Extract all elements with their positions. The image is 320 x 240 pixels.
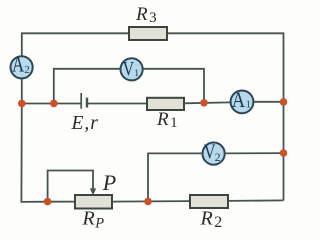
svg-text:1: 1 <box>134 69 139 79</box>
svg-text:A: A <box>12 52 24 77</box>
wire left bus down to bottom-left corner <box>21 103 47 201</box>
wire middle: junction to battery <box>22 103 81 105</box>
wire V1 branch right <box>143 69 204 103</box>
wire battery to R1 <box>87 103 147 105</box>
wire RP to R2 <box>112 200 190 203</box>
wiper wire with arrow P <box>48 171 93 202</box>
resistor R2 <box>190 195 228 208</box>
battery E,r short plate <box>86 98 88 108</box>
node junction right bus middle <box>280 98 288 106</box>
wire R2 to bottom-right corner <box>228 199 284 202</box>
wire top-left segment <box>22 33 129 55</box>
wire V2 branch left <box>148 153 202 201</box>
wire right bus middle <box>283 102 285 154</box>
svg-text:1: 1 <box>246 100 251 111</box>
rheostat RP <box>75 195 112 209</box>
wire left bus A2 to junction <box>21 79 23 103</box>
ammeter A1 <box>231 91 254 114</box>
node junction wiper bottom <box>44 198 52 206</box>
node junction right bus V2 <box>280 149 288 157</box>
battery E,r long plate <box>80 93 82 109</box>
svg-text:V: V <box>123 58 135 80</box>
wire V2 branch right <box>225 152 283 154</box>
svg-text:A: A <box>232 87 245 112</box>
wire right bus lower <box>283 153 285 200</box>
wire bottom: corner to RP <box>48 201 75 203</box>
ammeter A2 <box>11 56 33 78</box>
wire V1 branch left <box>54 69 120 104</box>
svg-text:2: 2 <box>215 150 221 164</box>
node junction V1 tap <box>50 100 58 108</box>
voltmeter V1 <box>121 58 143 80</box>
node junction V2 bottom <box>144 198 152 206</box>
svg-text:E,r: E,r <box>71 113 99 134</box>
wiper arrowhead <box>90 188 96 195</box>
wire R1 to A1 <box>184 101 230 104</box>
svg-text:2: 2 <box>24 64 30 76</box>
node junction R1 right <box>200 99 208 107</box>
svg-text:P: P <box>102 170 116 195</box>
resistor R3 <box>129 27 167 40</box>
voltmeter V2 <box>203 143 225 165</box>
node junction left-middle <box>18 100 26 108</box>
resistor R1 <box>147 98 184 110</box>
wire A1 to right bus <box>254 101 284 103</box>
wire top-right segment <box>167 33 284 102</box>
